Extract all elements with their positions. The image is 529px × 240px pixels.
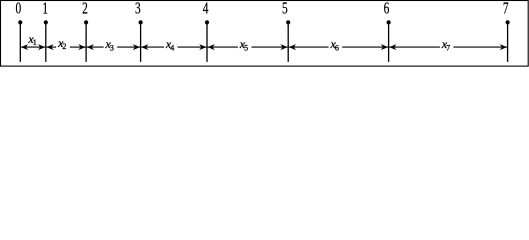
dimension x2 right shaft wire [70, 46, 86, 48]
node 4 vertical wire [206, 22, 208, 62]
dimension x4 right shaft wire [178, 46, 207, 48]
dimension x6 left arrowhead [289, 44, 296, 50]
dimension x5 left shaft wire [208, 46, 238, 48]
node 7 vertical wire [507, 22, 509, 62]
node 1 vertical wire [45, 22, 47, 62]
dimension x1 right arrowhead [38, 44, 45, 50]
border frame [1, 1, 529, 67]
svg-text:4: 4 [203, 0, 209, 18]
node 0 dot [18, 20, 22, 24]
dimension x3 right arrowhead [133, 44, 140, 50]
dimension x5 right shaft wire [252, 46, 288, 48]
node 7 dot [506, 20, 510, 24]
svg-text:0: 0 [15, 0, 21, 18]
node 2 vertical wire [85, 22, 87, 62]
node 0 label [15, 0, 21, 18]
dimension x3 left shaft wire [87, 46, 104, 48]
node 4 dot [205, 20, 209, 24]
node 7 label [503, 0, 509, 18]
svg-text:1: 1 [42, 0, 48, 18]
dimension label x4 [165, 37, 174, 52]
dimension label x7 [441, 37, 450, 52]
node 5 dot [286, 20, 290, 24]
dimension x7 right shaft wire [454, 46, 508, 48]
node 5 label [282, 0, 288, 18]
dimension x7 right arrowhead [500, 44, 507, 50]
dimension x6 right shaft wire [342, 46, 388, 48]
dimension x5 right arrowhead [280, 44, 287, 50]
node 2 dot [84, 20, 88, 24]
node 1 label [42, 0, 48, 18]
dimension x7 left arrowhead [389, 44, 396, 50]
dimension x2 left arrowhead [46, 44, 53, 50]
node 1 dot [44, 20, 48, 24]
node 6 label [384, 0, 390, 18]
dimension x4 right arrowhead [199, 44, 206, 50]
dimension label x2 [57, 36, 66, 51]
dimension x6 left shaft wire [289, 46, 329, 48]
node 0 vertical wire [19, 22, 21, 62]
dimension label x5 [239, 37, 248, 52]
node 5 vertical wire [287, 22, 289, 62]
dimension x7 left shaft wire [389, 46, 440, 48]
dimension x5 left arrowhead [208, 44, 215, 50]
dimension label x3 [105, 37, 114, 52]
svg-text:3: 3 [135, 0, 141, 18]
node 3 dot [139, 20, 143, 24]
node 3 label [135, 0, 141, 18]
node 4 label [203, 0, 209, 18]
node 6 dot [387, 20, 391, 24]
dimension x1 left arrowhead [21, 44, 28, 50]
svg-text:2: 2 [82, 0, 88, 18]
node 6 vertical wire [388, 22, 390, 62]
dimension x3 left arrowhead [87, 44, 94, 50]
node 2 label [82, 0, 88, 18]
node 3 vertical wire [140, 22, 142, 62]
dimension x1 shaft wire [21, 46, 45, 48]
svg-text:5: 5 [282, 0, 288, 18]
dimension label x1 [27, 32, 36, 47]
dimension x2 left shaft wire [46, 46, 56, 48]
dimension x6 right arrowhead [381, 44, 388, 50]
dimension x2 right arrowhead [78, 44, 85, 50]
dimension x4 left shaft wire [141, 46, 164, 48]
dimension x4 left arrowhead [141, 44, 148, 50]
svg-text:7: 7 [503, 0, 509, 18]
dimension x3 right shaft wire [117, 46, 140, 48]
svg-text:6: 6 [384, 0, 390, 18]
dimension label x6 [330, 37, 339, 52]
